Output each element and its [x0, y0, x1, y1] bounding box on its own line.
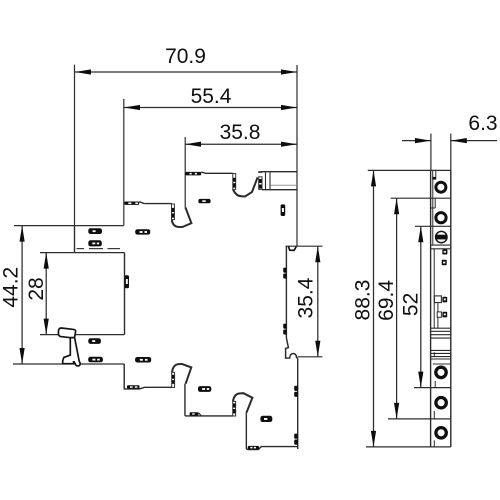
wire: right upper edge x=286.4: [285, 246, 287, 338]
terminal mark 3: [135, 229, 150, 234]
dimension 69.4: [396, 198, 398, 419]
wire: label box bottom y=189.7: [262, 189, 297, 191]
clamp pole B (bottom step): [233, 401, 236, 416]
wire: bottom edge with jog: [246, 447, 297, 450]
terminal mark 7: [198, 386, 211, 392]
tick on x=124.5 edge: [125, 275, 129, 288]
wire: vertical x=246.35 down to bottom: [245, 413, 247, 449]
wire: top mid step edge y=203.55: [144, 203, 172, 205]
front view inner verticals: [431, 180, 438, 447]
extension lines: [13, 65, 451, 447]
screw hole E: [436, 398, 446, 408]
notch band top-left (x=124): [124, 202, 139, 205]
svg-text:44.2: 44.2: [0, 267, 23, 308]
small marks mid: [442, 297, 447, 303]
dimension 52: [420, 226, 422, 387]
hidden dashed line y=248.6: [77, 248, 121, 250]
top tab with dark base: [432, 171, 436, 180]
clamp pole top-2: [233, 174, 236, 190]
svg-text:69.4: 69.4: [375, 280, 398, 321]
wire: mid vertical x=124.5: [124, 253, 126, 335]
svg-text:6.3: 6.3: [468, 112, 497, 135]
DIN rail latch cap: [58, 328, 75, 338]
dimension 88.3: [373, 170, 375, 447]
svg-text:35.4: 35.4: [295, 277, 318, 318]
wire: label box top y=171.7: [262, 171, 298, 173]
svg-text:88.3: 88.3: [352, 280, 375, 321]
vertical tick mark upper right: [281, 204, 286, 216]
svg-text:52: 52: [400, 293, 423, 316]
dimension 35.4: [317, 246, 319, 357]
dimension 55.4: [124, 107, 297, 109]
wire: label box verticals: [265, 172, 267, 189]
wire: right lower edge x=297.7: [297, 358, 299, 449]
wire: top hook2 curve: [233, 177, 258, 196]
clamp pole A (bottom step): [172, 372, 175, 387]
dimension 44.2 left: [21, 226, 23, 364]
wire: vertical x=185 down to step B: [184, 384, 186, 416]
terminal mark 5: [88, 357, 103, 363]
wire: top hook1 curve: [172, 207, 192, 227]
notch band step B: [190, 412, 202, 416]
wire: label box inner light line: [270, 184, 297, 186]
terminal mark 8: [260, 416, 272, 422]
wire: V-notch at y=246: [288, 246, 296, 250]
clamp bumps on x=297.7 edge: [294, 386, 298, 445]
dimension 70.9 top: [75, 71, 297, 73]
terminal mark 4: [88, 338, 101, 344]
terminal mark 6: [135, 357, 151, 363]
svg-text:35.8: 35.8: [220, 121, 261, 144]
wire: left body step edge y=252.6: [74, 226, 76, 253]
screw hole A: [436, 182, 446, 192]
wire: hook A outer: [172, 364, 191, 384]
dimension 6.3 (front view width): [402, 140, 497, 142]
screw hole C with slot: [436, 231, 447, 242]
wire: arch transition at right: [286, 338, 298, 358]
front view horizontal partitions: [431, 245, 451, 364]
clamp bumps on x=286.4 edge: [283, 268, 286, 335]
dimension 35.8: [185, 143, 297, 145]
wire: hook B outer: [233, 393, 252, 412]
terminal mark 9 (near top hook): [198, 199, 210, 203]
terminal mark 1: [88, 228, 102, 234]
notch band bottom step A: [127, 385, 140, 389]
svg-text:55.4: 55.4: [191, 85, 232, 108]
terminal mark 2: [88, 240, 102, 246]
notch band bottom C: [248, 446, 259, 450]
front view outer edges: [431, 170, 451, 447]
side view main outline segments: [75, 172, 298, 450]
svg-text:28: 28: [25, 277, 48, 300]
clamp pole top-3 (label clip): [258, 171, 262, 189]
screw hole D: [436, 367, 446, 377]
small marks below C: [442, 249, 447, 254]
small box mid: [434, 296, 441, 303]
screw hole F: [436, 428, 446, 438]
wire: top edge B y=173.35: [201, 172, 233, 173]
screw hole B: [436, 213, 446, 223]
wire: bottom step down at x=124.2: [124, 364, 172, 389]
top edge A dark band with slits: [185, 172, 201, 176]
svg-text:70.9: 70.9: [165, 45, 206, 68]
DIN rail latch body and foot: [63, 338, 80, 366]
wire: notch jog to step edge: [139, 202, 144, 204]
clamp pole top-1: [172, 204, 175, 220]
dimension 28: [45, 253, 47, 335]
wire: step B plateau: [185, 415, 233, 417]
